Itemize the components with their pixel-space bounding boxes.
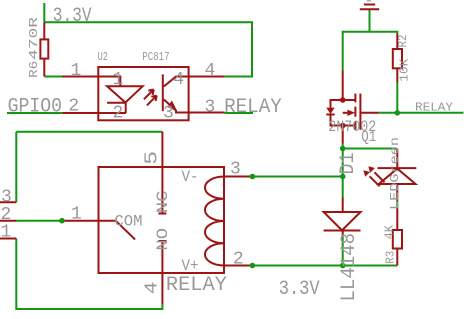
svg-text:R3: R3 — [383, 251, 397, 264]
svg-text:R6: R6 — [27, 61, 41, 78]
svg-text:RELAY: RELAY — [224, 96, 282, 119]
svg-text:RELAY: RELAY — [166, 274, 227, 297]
svg-text:4K: 4K — [383, 224, 397, 239]
svg-text:R2: R2 — [396, 35, 410, 48]
svg-text:470R: 470R — [27, 17, 41, 60]
svg-text:COM: COM — [114, 213, 142, 231]
svg-text:10K: 10K — [397, 58, 411, 82]
svg-text:4: 4 — [173, 70, 184, 90]
svg-text:3: 3 — [205, 98, 216, 118]
svg-text:1: 1 — [113, 70, 124, 90]
svg-text:2: 2 — [233, 250, 244, 270]
svg-text:LL4148: LL4148 — [338, 233, 361, 302]
svg-text:2: 2 — [113, 103, 124, 123]
svg-text:1: 1 — [71, 205, 82, 225]
svg-text:1: 1 — [71, 61, 82, 81]
svg-text:GPIO0: GPIO0 — [8, 96, 62, 119]
svg-text:3: 3 — [230, 159, 241, 179]
svg-text:RELAY: RELAY — [415, 101, 453, 115]
svg-text:Q1: Q1 — [361, 128, 376, 146]
svg-text:3.3V: 3.3V — [53, 5, 92, 28]
svg-text:NO: NO — [154, 228, 172, 251]
svg-text:D1: D1 — [337, 153, 360, 175]
svg-text:PC817: PC817 — [142, 50, 170, 64]
svg-text:4: 4 — [205, 61, 216, 81]
svg-text:V+: V+ — [182, 257, 199, 275]
svg-text:5: 5 — [142, 151, 162, 165]
svg-text:V-: V- — [182, 168, 199, 186]
svg-text:NC: NC — [154, 191, 172, 214]
svg-text:U2: U2 — [98, 50, 108, 64]
svg-text:2: 2 — [68, 97, 79, 117]
svg-text:LEDGreen: LEDGreen — [388, 137, 402, 210]
svg-text:4: 4 — [142, 282, 162, 295]
svg-text:1: 1 — [1, 223, 12, 243]
svg-text:3.3V: 3.3V — [279, 278, 320, 301]
svg-text:3: 3 — [163, 103, 174, 123]
